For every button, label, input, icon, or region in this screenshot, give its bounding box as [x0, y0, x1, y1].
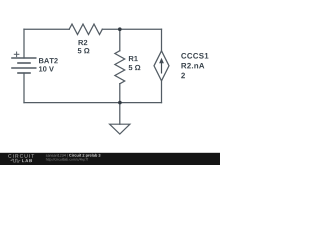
node B junction dot bottom [118, 101, 122, 105]
logo CIRCUIT text [8, 154, 34, 158]
label R1 value 5 ohm [129, 65, 141, 70]
label BAT2 [39, 58, 58, 63]
wire CCCS1 bottom to bottom wire [161, 81, 163, 103]
battery plus sign [14, 52, 20, 58]
caption line 2 url [46, 158, 88, 161]
label R2 [79, 40, 88, 45]
resistor R2 [69, 24, 102, 34]
label R2 value 5 ohm [78, 48, 90, 53]
wire battery top to top-left corner [23, 29, 25, 58]
wire battery bottom [23, 73, 25, 103]
caption line 1 title [69, 154, 100, 158]
label CCCS1 value 2 [181, 73, 185, 79]
label R1 [129, 56, 138, 61]
wire top middle segment [102, 28, 161, 30]
wire ground stub [119, 103, 121, 125]
wire top left segment [24, 28, 69, 30]
label BAT2 value 10 V [39, 66, 54, 71]
wire bottom segment [24, 102, 162, 104]
label CCCS1 [181, 53, 208, 59]
logo waveform [11, 159, 21, 162]
footer bar [0, 153, 220, 165]
current source CCCS1 diamond body [154, 51, 169, 81]
wire R1 bottom to bottom wire [119, 84, 121, 103]
battery BAT2 plates [11, 58, 36, 73]
resistor R1 [115, 51, 125, 84]
CCCS1 arrow [159, 58, 164, 74]
wire right vertical to CCCS1 top [161, 29, 163, 51]
logo LAB text [22, 159, 32, 162]
caption line 1 username [46, 154, 68, 157]
label CCCS1 gain R2.nA [181, 63, 204, 69]
wire R1 branch from node A down [119, 29, 121, 51]
ground [110, 124, 130, 134]
node A junction dot top [118, 27, 122, 31]
